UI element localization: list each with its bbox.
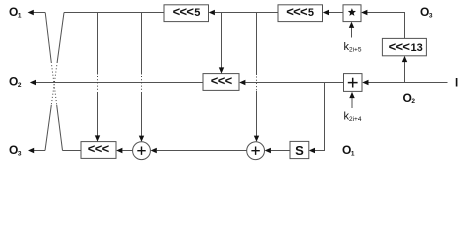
wire rail3 O3 arrow stub bbox=[28, 148, 45, 153]
subkey label k2i+4 bbox=[344, 111, 362, 124]
svg-text:13: 13 bbox=[411, 42, 423, 54]
subkey label k2i+5 bbox=[344, 41, 362, 54]
svg-text:I: I bbox=[455, 78, 458, 90]
wire rail2 O2 arrow stub and main segment bbox=[30, 80, 203, 85]
svg-text:S: S bbox=[295, 143, 304, 158]
svg-text:2i+4: 2i+4 bbox=[349, 116, 362, 123]
svg-text:<<<: <<< bbox=[88, 141, 110, 156]
rotate box R4 <<< (middle) bbox=[203, 73, 239, 90]
rotate box R1 <<<5 (top left) bbox=[164, 4, 209, 21]
node O2 output label (left middle) bbox=[9, 74, 22, 88]
xor node X2 bbox=[247, 142, 265, 160]
svg-text:3: 3 bbox=[429, 12, 433, 19]
adder box A1 + bbox=[344, 74, 363, 92]
wire into A1 with left arrow, from I, junction at R3 tap bbox=[362, 80, 447, 85]
node O1 output label (left top) bbox=[9, 5, 22, 19]
svg-text:<<<: <<< bbox=[286, 4, 308, 19]
subkey k2i+4 arrow into A1 bottom bbox=[349, 92, 354, 108]
dropper wire D3 from rail1 junction to R4 top bbox=[219, 13, 224, 74]
subkey k2i+5 arrow into U1 bottom bbox=[349, 22, 354, 38]
rotate box R3 <<<13 bbox=[382, 38, 426, 55]
node O3 input label (right top) bbox=[420, 5, 433, 19]
wire into X2 with left arrow bbox=[265, 148, 290, 153]
rotate box R2 <<<5 (top middle) bbox=[278, 4, 323, 21]
wire from rail2 junction up into R3 bottom with up arrow bbox=[402, 56, 407, 83]
dropper wire D4 from rail1 junction to X2 top, dotted across rail2 bbox=[254, 13, 259, 142]
wire crossing diagonal L1 (rail3 signal up to O1), dotted at waist bbox=[45, 13, 62, 151]
node I input label (far right) bbox=[455, 78, 458, 90]
wire into R5 with left arrow bbox=[116, 148, 132, 153]
svg-text:5: 5 bbox=[194, 7, 200, 19]
wire into R2 with left arrow bbox=[323, 10, 343, 15]
svg-text:3: 3 bbox=[18, 151, 22, 158]
wire rail1 main segment with junctions at D1 D2 bbox=[64, 12, 164, 14]
sbox S1 bbox=[290, 141, 309, 158]
node O3 output label (left bottom) bbox=[9, 143, 22, 157]
xor node X1 bbox=[133, 142, 151, 160]
wire into R1 with left arrow, junctions at D3 D4 bbox=[209, 10, 278, 15]
svg-text:2i+5: 2i+5 bbox=[349, 47, 362, 54]
wire crossing diagonal L2 (rail1 signal down to O3), dotted at waist bbox=[45, 13, 64, 151]
node O2 input label (right, under rail 2) bbox=[403, 91, 416, 105]
multiplier box U1 * bbox=[343, 5, 361, 22]
wire into S1 with left arrow, from rail2 corner junction bbox=[309, 83, 325, 154]
svg-text:<<<: <<< bbox=[389, 39, 411, 54]
svg-text:<<<: <<< bbox=[173, 4, 195, 19]
rotate box R5 <<< (bottom) bbox=[81, 141, 116, 158]
node O1 input label (right of S box) bbox=[342, 143, 355, 157]
wire into U1 with left arrow, from corner above R3 bbox=[361, 10, 404, 39]
svg-text:2: 2 bbox=[18, 82, 22, 89]
svg-text:2: 2 bbox=[411, 98, 415, 105]
svg-text:<<<: <<< bbox=[211, 73, 233, 88]
svg-text:1: 1 bbox=[18, 12, 22, 19]
wire rail3 left segment bbox=[63, 150, 82, 152]
svg-text:1: 1 bbox=[351, 151, 355, 158]
dropper wire D2 from rail1 junction to X1 top, dotted across rail2 bbox=[139, 13, 144, 142]
wire rail1 O1 arrow stub bbox=[28, 10, 46, 15]
svg-text:5: 5 bbox=[308, 7, 314, 19]
dropper wire D1 from rail1 junction to R5 top, dotted across rail2 bbox=[95, 13, 100, 142]
wire into R4 with left arrow, junction at corner to S1 bbox=[239, 80, 343, 85]
wire into X1 with left arrow bbox=[151, 148, 247, 153]
